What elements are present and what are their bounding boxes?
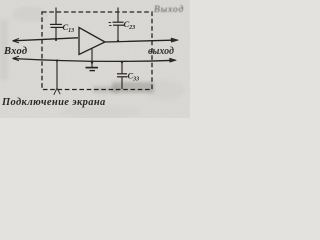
- svg-text:Вход: Вход: [3, 46, 27, 57]
- junction dot input/C13: [55, 39, 57, 41]
- wire output: [105, 40, 172, 42]
- junction dot rail/C33: [121, 61, 123, 63]
- wire common rail: [13, 59, 175, 62]
- terminal arrow output: [171, 38, 179, 42]
- terminal arrow input top: [13, 39, 20, 43]
- svg-text:выход: выход: [148, 46, 174, 57]
- leader arrowhead to caption: [54, 88, 60, 95]
- svg-text:Выход: Выход: [154, 4, 184, 15]
- shield (dashed screen box): [42, 12, 152, 90]
- junction dot output/C23: [117, 40, 119, 42]
- smudge artifact left margin: [0, 20, 8, 80]
- smudge artifact bottom right of box: [112, 82, 154, 93]
- capacitor C23: [109, 8, 125, 42]
- terminal arrow common right: [170, 58, 177, 62]
- op-amp U1: [79, 28, 105, 55]
- smudge artifact under bottom dashes: [93, 86, 119, 93]
- capacitor C33: [117, 62, 128, 89]
- svg-text:Подключение экрана: Подключение экрана: [1, 97, 106, 108]
- shield connection wire: [56, 61, 58, 89]
- wire input line: [13, 38, 78, 41]
- capacitor C13: [50, 8, 63, 41]
- junction dot rail/shield tap: [56, 59, 58, 61]
- junction dot rail/ground: [91, 61, 93, 63]
- terminal arrow common left: [13, 56, 20, 60]
- ground: [86, 49, 99, 71]
- paper blotches: [12, 6, 48, 22]
- paper background: [0, 0, 190, 118]
